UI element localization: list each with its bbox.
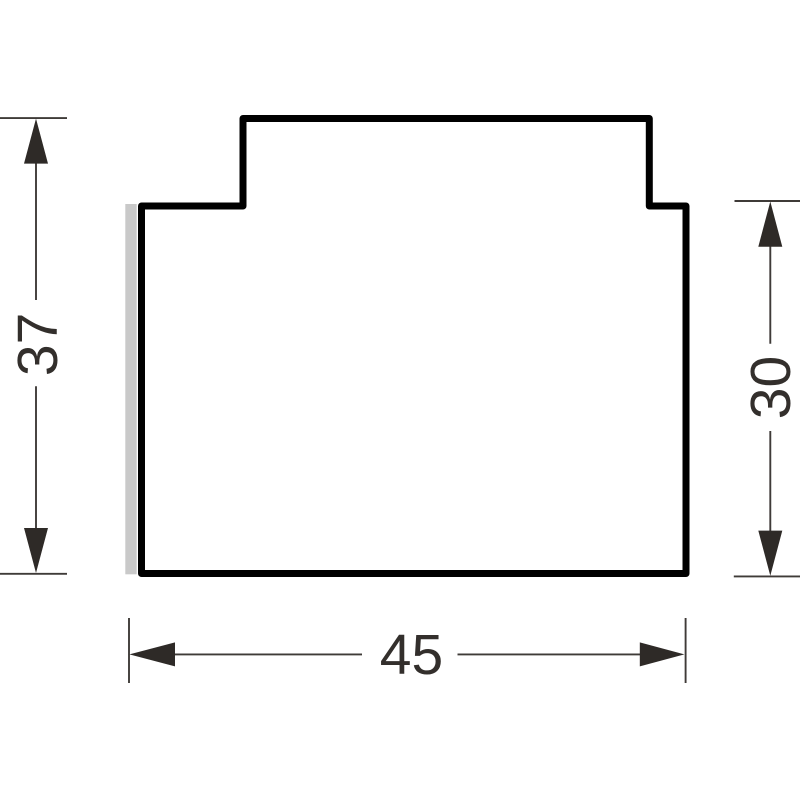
dimension 45: right extension line (685, 618, 687, 683)
dimension 45: dimension line right segment (458, 653, 661, 655)
svg-text:45: 45 (380, 623, 443, 687)
dimension 45: dimension line left segment (150, 653, 362, 655)
dimension 30: dimension line upper segment (769, 225, 771, 344)
dimension 30: top arrowhead (758, 202, 782, 247)
dimension 30: bottom arrowhead (758, 531, 782, 576)
dimension 30: top extension line (735, 200, 800, 202)
dimension 37: top extension line (0, 117, 67, 119)
dimension 37: dimension line lower segment (35, 386, 37, 550)
dimension 45: left extension line (128, 618, 130, 683)
dimension 37: dimension line upper segment (35, 140, 37, 300)
dimension 37: top arrowhead (24, 119, 48, 164)
dimension 37: bottom arrowhead (24, 528, 48, 573)
part outline (stepped cap profile) (142, 119, 687, 574)
dimension 45: right arrowhead (640, 642, 685, 666)
dimension 37: bottom extension line (0, 573, 67, 575)
dimension 45: left arrowhead (129, 642, 175, 666)
dimension 30: bottom extension line (734, 575, 800, 577)
dimension 30: dimension line lower segment (769, 431, 771, 552)
svg-text:37: 37 (6, 313, 70, 376)
svg-text:30: 30 (739, 356, 800, 419)
gray side strip (left shadow of part) (125, 204, 136, 574)
